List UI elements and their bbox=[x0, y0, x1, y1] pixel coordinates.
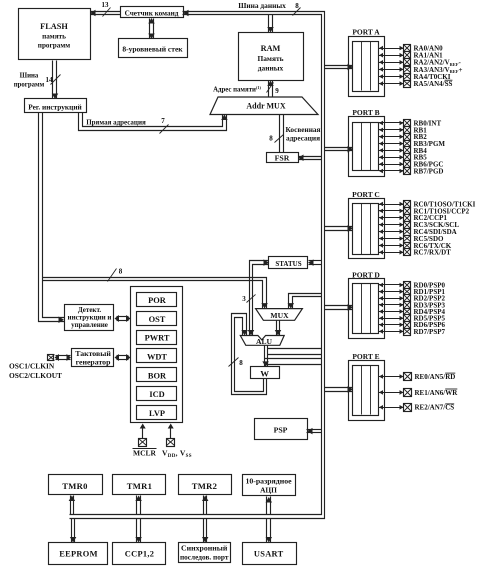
block RAM data memory bbox=[239, 33, 304, 81]
svg-text:ALU: ALU bbox=[256, 337, 273, 346]
svg-text:8: 8 bbox=[239, 359, 243, 367]
svg-text:OSC1/CLKIN: OSC1/CLKIN bbox=[9, 362, 55, 371]
pin RA4/T0CKI bbox=[379, 76, 404, 78]
wire peripheral bus to EEPROM bbox=[71, 519, 73, 543]
pin RB6/PGC bbox=[379, 164, 404, 166]
pin RA2/AN2/V<tspan font-size="4.4" dy="1.4">REF</tspan><tspan dy="-1.4">-</tspan> bbox=[379, 62, 404, 64]
svg-text:Синхронный: Синхронный bbox=[181, 544, 228, 553]
block TMR2 bbox=[179, 475, 232, 495]
svg-text:последов. порт: последов. порт bbox=[180, 553, 229, 562]
pin RD5/PSP5 bbox=[379, 318, 404, 320]
wire data bus to PORT E bbox=[325, 387, 353, 389]
block supervisor column outer box bbox=[131, 287, 183, 423]
block EEPROM bbox=[49, 543, 108, 565]
block instruction decode and control (Детект.) bbox=[65, 305, 114, 331]
wire 8-bit literal branch to MUX bbox=[43, 278, 267, 309]
pin RB5 bbox=[379, 157, 404, 159]
svg-text:Память: Память bbox=[257, 54, 283, 63]
port block PORT E inner register box bbox=[353, 366, 379, 416]
port block PORT E outer box bbox=[349, 361, 385, 421]
svg-text:память: память bbox=[42, 33, 66, 41]
svg-text:PORT A: PORT A bbox=[352, 28, 380, 37]
wire data bus to PORT C bbox=[325, 226, 353, 228]
block TMR0 bbox=[49, 475, 103, 495]
wire data bus to PORT B bbox=[325, 147, 353, 149]
svg-text:USART: USART bbox=[254, 550, 284, 559]
svg-text:генератор: генератор bbox=[76, 358, 112, 367]
svg-text:LVP: LVP bbox=[149, 409, 165, 418]
wire TMR2 to peripheral bus bbox=[203, 496, 205, 515]
wire peripheral bus to synchronous serial port bbox=[203, 519, 205, 543]
svg-text:9: 9 bbox=[275, 87, 279, 95]
pin RB0/INT bbox=[379, 122, 404, 124]
svg-text:Шина данных: Шина данных bbox=[238, 1, 286, 10]
svg-text:8: 8 bbox=[295, 2, 299, 10]
port block PORT B inner register box bbox=[353, 123, 379, 171]
wire crystal to clock generator (bidirectional) bbox=[56, 355, 71, 357]
svg-text:13: 13 bbox=[102, 1, 110, 9]
block LVP bbox=[137, 406, 177, 420]
svg-text:TMR0: TMR0 bbox=[62, 481, 88, 491]
svg-text:Адрес памяти(1): Адрес памяти(1) bbox=[213, 85, 261, 94]
block POR bbox=[137, 293, 177, 307]
wire data bus to PORT D bbox=[325, 305, 353, 307]
wire data bus to PSP bbox=[307, 429, 322, 431]
svg-text:RB7/PGD: RB7/PGD bbox=[414, 167, 444, 175]
svg-text:PSP: PSP bbox=[274, 426, 288, 435]
pin RD4/PSP4 bbox=[379, 311, 404, 313]
pin RC2/CCP1 bbox=[379, 217, 404, 219]
svg-text:Рег. инструкций: Рег. инструкций bbox=[28, 103, 82, 112]
block program counter (Счетчик команд) bbox=[121, 7, 184, 18]
svg-text:3: 3 bbox=[242, 295, 246, 303]
wire STATUS to data bus bbox=[309, 260, 322, 262]
pin RC6/TX/CK bbox=[379, 245, 404, 247]
wire ALU to STATUS 3-bit bbox=[250, 261, 269, 336]
svg-text:PORT E: PORT E bbox=[352, 352, 379, 361]
svg-text:CCP1,2: CCP1,2 bbox=[125, 550, 154, 559]
wire direct addressing 7-bit to Addr MUX bbox=[79, 113, 227, 131]
port block PORT A outer box bbox=[349, 37, 385, 97]
wire data bus to RAM bbox=[268, 15, 270, 33]
block USART bbox=[243, 543, 297, 565]
pin RA5/AN4/SS bbox=[379, 83, 404, 85]
svg-text:программ: программ bbox=[14, 82, 45, 89]
pin RB1 bbox=[379, 129, 404, 131]
svg-text:8: 8 bbox=[119, 268, 123, 276]
pin RC3/SCK/SCL bbox=[379, 224, 404, 226]
svg-text:Addr MUX: Addr MUX bbox=[246, 102, 285, 111]
svg-text:RD7/PSP7: RD7/PSP7 bbox=[414, 328, 446, 336]
block clock generator (Тактовый генератор) bbox=[72, 349, 114, 367]
pin pad OSC1/OSC2 crystal bbox=[48, 355, 54, 361]
wire 13-bit program counter to FLASH bbox=[91, 11, 121, 13]
svg-text:PORT B: PORT B bbox=[352, 108, 379, 117]
svg-text:8-уровневый стек: 8-уровневый стек bbox=[122, 45, 183, 54]
pin RC5/SDO bbox=[379, 238, 404, 240]
block OST bbox=[137, 312, 177, 326]
alu ALU bbox=[240, 336, 284, 346]
svg-text:ICD: ICD bbox=[149, 390, 164, 399]
port block PORT C inner register box bbox=[353, 204, 379, 255]
svg-text:OSC2/CLKOUT: OSC2/CLKOUT bbox=[9, 371, 62, 380]
port block PORT D inner register box bbox=[353, 284, 379, 334]
wire TMR1 to peripheral bus bbox=[136, 496, 138, 515]
svg-text:данных: данных bbox=[258, 64, 284, 73]
wire peripheral bus to USART bbox=[266, 519, 268, 543]
pin RD0/PSP0 bbox=[379, 284, 404, 286]
svg-text:BOR: BOR bbox=[148, 371, 167, 380]
pin RE2/AN7/CS bbox=[379, 407, 404, 409]
pin RB2 bbox=[379, 136, 404, 138]
block CCP1,2 bbox=[113, 543, 166, 565]
svg-text:Шина: Шина bbox=[20, 73, 39, 80]
block 8-level stack bbox=[119, 39, 188, 58]
mux Addr MUX bbox=[210, 97, 318, 115]
port block PORT C outer box bbox=[349, 199, 385, 259]
svg-text:7: 7 bbox=[161, 117, 165, 125]
svg-text:W: W bbox=[260, 369, 269, 379]
pin RD3/PSP3 bbox=[379, 304, 404, 306]
wire FSR to data bus bbox=[299, 156, 322, 158]
pin RB3/PGM bbox=[379, 143, 404, 145]
wire ALU output to W register bbox=[264, 346, 266, 367]
svg-text:RC7/RX/DT: RC7/RX/DT bbox=[414, 249, 452, 257]
svg-text:адресация: адресация bbox=[286, 134, 320, 143]
wire W feedback loop to ALU 8-bit bbox=[232, 314, 267, 395]
pin RA3/AN3/V<tspan font-size="4.4" dy="1.4">REF</tspan><tspan dy="-1.4">+</tspan> bbox=[379, 69, 404, 71]
wire ADC to peripheral bus bbox=[266, 497, 268, 515]
block W register bbox=[251, 367, 280, 379]
wire data bus (Шина данных) top run, right vertical bus and bottom bus bbox=[70, 12, 325, 519]
wire clock generator to timing block (bidirectional) bbox=[117, 355, 129, 357]
block TMR1 bbox=[113, 475, 166, 495]
block synchronous serial port bbox=[179, 543, 231, 563]
wire peripheral bus to CCP bbox=[136, 519, 138, 543]
svg-text:RE1/AN6/WR: RE1/AN6/WR bbox=[415, 389, 459, 397]
wire instruction decode to timing block (bidirectional) bbox=[117, 316, 129, 318]
port block PORT D outer box bbox=[349, 279, 385, 339]
svg-text:EEPROM: EEPROM bbox=[59, 550, 98, 559]
svg-text:OST: OST bbox=[149, 315, 166, 324]
pin pad MCLR bbox=[139, 439, 147, 447]
block ICD bbox=[137, 387, 177, 401]
block PWRT bbox=[137, 331, 177, 345]
wire data bus to MUX right input bbox=[289, 294, 322, 309]
pin pad VDD VSS bbox=[167, 439, 175, 447]
svg-text:PORT C: PORT C bbox=[352, 190, 380, 199]
svg-text:8: 8 bbox=[269, 135, 273, 143]
pin RA1/AN1 bbox=[379, 55, 404, 57]
svg-text:PWRT: PWRT bbox=[145, 334, 170, 343]
svg-text:управление: управление bbox=[71, 321, 108, 329]
pin RE0/AN5/RD bbox=[379, 376, 404, 378]
block FSR register bbox=[267, 153, 299, 163]
block PSP bbox=[255, 419, 308, 440]
svg-text:FSR: FSR bbox=[275, 154, 290, 163]
svg-text:MUX: MUX bbox=[270, 311, 289, 320]
svg-text:TMR2: TMR2 bbox=[192, 481, 218, 491]
wire program counter - stack (bidirectional) bbox=[149, 19, 151, 39]
pin RE1/AN6/WR bbox=[379, 392, 404, 394]
pin RC4/SDI/SDA bbox=[379, 231, 404, 233]
block 10-bit ADC bbox=[243, 475, 296, 496]
svg-text:Счетчик команд: Счетчик команд bbox=[125, 10, 179, 18]
block STATUS register bbox=[269, 257, 308, 269]
svg-text:TMR1: TMR1 bbox=[127, 481, 153, 491]
pin RC0/T1OSO/T1CKI bbox=[379, 204, 404, 206]
port block PORT A inner register box bbox=[353, 42, 379, 92]
mux MUX (ALU input select) bbox=[256, 309, 303, 321]
svg-text:MCLR: MCLR bbox=[133, 449, 156, 458]
svg-text:14: 14 bbox=[46, 76, 54, 84]
pin RD1/PSP1 bbox=[379, 291, 404, 293]
svg-text:программ: программ bbox=[38, 42, 70, 50]
wire data bus to PORT A bbox=[325, 65, 353, 67]
wire FSR to Addr MUX 8-bit bbox=[279, 115, 281, 153]
svg-text:STATUS: STATUS bbox=[275, 260, 301, 268]
block BOR bbox=[137, 368, 177, 382]
svg-text:PORT D: PORT D bbox=[352, 271, 380, 280]
pin RD2/PSP2 bbox=[379, 298, 404, 300]
svg-text:АЦП: АЦП bbox=[260, 486, 277, 495]
pin RD6/PSP6 bbox=[379, 324, 404, 326]
wire literal bus from instruction register down-left side bbox=[39, 113, 65, 322]
wire RAM address 9-bit from Addr MUX bbox=[268, 81, 270, 97]
pin RC7/RX/DT bbox=[379, 252, 404, 254]
svg-text:10-разрядное: 10-разрядное bbox=[245, 477, 292, 486]
svg-text:Прямая адресация: Прямая адресация bbox=[86, 119, 146, 127]
svg-text:RE2/AN7/CS: RE2/AN7/CS bbox=[415, 404, 455, 412]
svg-text:RA5/AN4/SS: RA5/AN4/SS bbox=[414, 80, 453, 88]
wire ALU result to data bus bbox=[268, 348, 322, 350]
block FLASH program memory bbox=[19, 9, 91, 60]
pin RC1/T1OSI/CCP2 bbox=[379, 210, 404, 212]
pin RB7/PGD bbox=[379, 170, 404, 172]
block instruction register (Рег. инструкций) bbox=[25, 99, 87, 113]
svg-text:POR: POR bbox=[148, 296, 167, 305]
block WDT bbox=[137, 349, 177, 363]
wire data bus to W input bbox=[265, 358, 322, 360]
wire MUX output to ALU bbox=[276, 321, 278, 336]
svg-text:RE0/AN5/RD: RE0/AN5/RD bbox=[415, 373, 456, 381]
pin RD7/PSP7 bbox=[379, 331, 404, 333]
svg-text:WDT: WDT bbox=[147, 353, 167, 362]
pin RA0/AN0 bbox=[379, 48, 404, 50]
wire 14-bit program bus FLASH to instruction register bbox=[52, 61, 54, 99]
port block PORT B outer box bbox=[349, 117, 385, 177]
svg-text:RAM: RAM bbox=[261, 44, 281, 53]
pin RB4 bbox=[379, 150, 404, 152]
wire TMR0 to peripheral bus bbox=[70, 496, 72, 515]
svg-text:FLASH: FLASH bbox=[40, 22, 68, 31]
